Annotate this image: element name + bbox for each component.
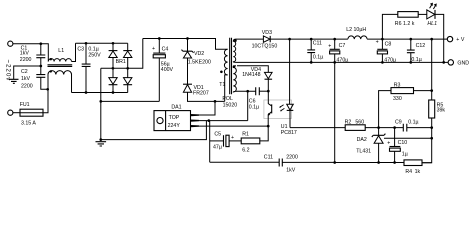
node drain junction bbox=[214, 100, 217, 103]
svg-text:1kV: 1kV bbox=[20, 50, 30, 56]
svg-text:R6 1.2 k: R6 1.2 k bbox=[395, 21, 415, 27]
svg-text:10CTQ150: 10CTQ150 bbox=[252, 44, 278, 50]
wire TL431 ref to divider bbox=[384, 137, 432, 139]
capacitor C11 0.1u (secondary) bbox=[307, 39, 323, 62]
svg-text:1kV: 1kV bbox=[286, 168, 296, 174]
svg-text:DA2: DA2 bbox=[357, 137, 367, 143]
svg-text:+: + bbox=[152, 46, 155, 52]
output terminal GND bbox=[448, 60, 453, 65]
svg-text:PC817: PC817 bbox=[281, 130, 297, 136]
node aux bottom bbox=[246, 90, 249, 93]
svg-text:TOP: TOP bbox=[169, 115, 180, 121]
diode BR1 bottom-left bbox=[112, 68, 114, 77]
wire AC2 after choke bbox=[72, 92, 128, 94]
ground symbol (primary) bbox=[96, 142, 107, 146]
svg-text:R2: R2 bbox=[345, 119, 352, 125]
node C1/C2 midpoint bbox=[39, 65, 42, 68]
wire divider column bbox=[431, 39, 433, 100]
wire control to C5 and Y-cap rail bbox=[209, 121, 211, 163]
svg-text:2200: 2200 bbox=[21, 84, 33, 90]
TVS VD2 1.5KE200 bbox=[182, 39, 211, 85]
svg-text:T1: T1 bbox=[219, 82, 225, 88]
resistor R1 6.2 bbox=[241, 126, 268, 153]
capacitor C3 0.1u 250V bbox=[77, 43, 101, 92]
node bridge AC2 bbox=[112, 91, 115, 94]
IC DA1 TOP224Y bbox=[154, 104, 199, 130]
capacitor C10 1u bbox=[387, 128, 407, 163]
node primary ground top bbox=[99, 100, 102, 103]
svg-text:POL: POL bbox=[222, 96, 233, 102]
wire aux winding top to VD4 bbox=[237, 66, 268, 73]
node TL431 anode bbox=[377, 161, 380, 164]
svg-text:DA1: DA1 bbox=[171, 104, 181, 110]
wire aux return to control bbox=[247, 91, 249, 120]
svg-text:VD3: VD3 bbox=[262, 30, 272, 36]
wire lower input bbox=[13, 112, 20, 114]
node C7 bottom bbox=[333, 61, 336, 64]
node divider mid C9 bbox=[430, 126, 433, 129]
diode BR1 bottom-right bbox=[127, 68, 129, 77]
opto light arrows bbox=[280, 105, 285, 111]
node C12 top bbox=[409, 38, 412, 41]
svg-text:330: 330 bbox=[393, 96, 402, 102]
node divider top bbox=[430, 38, 433, 41]
inductor L2 10uH bbox=[346, 27, 447, 39]
svg-text:GND: GND bbox=[457, 61, 469, 67]
opto LED bbox=[289, 39, 291, 104]
svg-text:C10: C10 bbox=[398, 140, 408, 146]
svg-text:BR1: BR1 bbox=[116, 59, 126, 65]
svg-text:2200: 2200 bbox=[286, 155, 298, 161]
fuse FU1 3.15A bbox=[20, 89, 48, 126]
svg-text:R1: R1 bbox=[242, 132, 249, 138]
diode BR1 top-left bbox=[112, 43, 114, 50]
svg-text:15020: 15020 bbox=[223, 102, 238, 108]
svg-text:0.1µ: 0.1µ bbox=[249, 105, 259, 111]
capacitor C8 470u bbox=[376, 39, 396, 64]
LED HL1 bbox=[427, 3, 444, 63]
node C8 bottom bbox=[381, 61, 384, 64]
node C10 top bbox=[393, 126, 396, 129]
node C10 bottom bbox=[393, 161, 396, 164]
resistor R2 560 bbox=[345, 119, 404, 130]
node R3 right bbox=[430, 89, 433, 92]
svg-text:1.5KE200: 1.5KE200 bbox=[188, 60, 211, 66]
capacitor C6 0.1u bbox=[249, 87, 268, 110]
capacitor C2 bbox=[21, 66, 48, 90]
wire AC1 after choke bbox=[76, 42, 128, 44]
svg-text:VD2: VD2 bbox=[194, 51, 204, 57]
shunt regulator DA2 TL431 bbox=[356, 128, 385, 163]
diode BR1 top-right bbox=[127, 43, 129, 50]
transformer T1 bbox=[219, 38, 237, 109]
svg-text:L1: L1 bbox=[58, 48, 64, 54]
svg-text:R3: R3 bbox=[394, 83, 401, 89]
svg-text:C5: C5 bbox=[214, 132, 221, 138]
svg-text:TL431: TL431 bbox=[356, 148, 371, 154]
capacitor C12 0.1u bbox=[407, 39, 425, 63]
diode VD1 FR207 bbox=[183, 84, 225, 101]
wire R6 branch from C8 node bbox=[382, 14, 397, 39]
opto phototransistor bbox=[268, 91, 271, 106]
svg-text:1N4148: 1N4148 bbox=[242, 72, 260, 78]
node bottom rail / C7 column bbox=[333, 161, 336, 164]
bottom rail to R4 bbox=[335, 162, 404, 164]
wire source pin bbox=[199, 125, 268, 127]
node source / emitter / R1 bbox=[267, 125, 270, 128]
svg-text:560: 560 bbox=[355, 119, 364, 125]
node C11 top bbox=[310, 38, 313, 41]
earth ground at input bbox=[9, 79, 19, 83]
pin 2 control bbox=[191, 120, 200, 122]
svg-text:1µ: 1µ bbox=[402, 152, 408, 158]
svg-text:HL1: HL1 bbox=[427, 21, 437, 27]
svg-text:C9: C9 bbox=[395, 119, 402, 125]
T1 secondary winding bbox=[233, 39, 236, 62]
input terminal X2 (lower) bbox=[8, 110, 13, 115]
wire aux winding bottom bbox=[237, 90, 256, 92]
capacitor C9 0.1u bbox=[395, 119, 432, 131]
svg-text:R4: R4 bbox=[405, 169, 412, 175]
node L1 bottom-left / C2 / fuse bbox=[46, 88, 49, 91]
wire bridge minus to primary ground bbox=[100, 68, 102, 139]
svg-text:1k: 1k bbox=[415, 169, 421, 175]
svg-text:39k: 39k bbox=[437, 108, 446, 114]
svg-text:C7: C7 bbox=[339, 43, 346, 49]
node VD4 cathode / C6 / opto collector bbox=[267, 90, 270, 93]
node C7 top bbox=[333, 38, 336, 41]
T1 aux winding bbox=[233, 66, 237, 92]
capacitor C1 bbox=[20, 44, 46, 66]
svg-text:L2 10µH: L2 10µH bbox=[346, 27, 366, 33]
resistor R5 39k bbox=[422, 100, 445, 163]
pin 1 drain bbox=[191, 114, 200, 116]
svg-text:FR207: FR207 bbox=[193, 90, 209, 96]
svg-text:C11: C11 bbox=[264, 155, 273, 161]
wire midpoint to earth bbox=[14, 66, 41, 79]
rectified + rail bbox=[143, 39, 228, 50]
wire primary ground rail to TOP source bbox=[101, 121, 207, 140]
resistor R4 1k bbox=[404, 160, 432, 175]
node TL431 cathode bbox=[377, 126, 380, 129]
resistor R3 330 bbox=[379, 83, 432, 128]
node HL1 return bbox=[442, 61, 445, 64]
svg-text:2200: 2200 bbox=[20, 57, 32, 63]
Y-capacitor C11 2200 1kV bbox=[210, 155, 335, 174]
wire upper input bbox=[13, 44, 48, 62]
output terminal +V bbox=[447, 36, 452, 41]
wire drain riser to TOP pin bbox=[199, 101, 215, 115]
node C3 top bbox=[85, 42, 88, 45]
wire feedback riser (C7 column to bottom rail) bbox=[334, 62, 336, 162]
svg-text:C8: C8 bbox=[385, 42, 392, 48]
wire opto LED cathode to R2 bbox=[290, 127, 345, 129]
svg-text:224Y: 224Y bbox=[168, 123, 181, 129]
svg-text:3.15 A: 3.15 A bbox=[21, 121, 36, 127]
node C11 bottom bbox=[310, 61, 313, 64]
svg-text:C4: C4 bbox=[162, 46, 169, 52]
T1 primary winding bbox=[224, 49, 227, 75]
optocoupler U1 PC817 bbox=[264, 39, 297, 136]
svg-text:400V: 400V bbox=[161, 67, 174, 73]
bridge rectifier BR1 bbox=[101, 39, 143, 93]
svg-text:0.1µ: 0.1µ bbox=[313, 55, 323, 61]
node bridge AC1 left column bbox=[112, 42, 115, 45]
node C3 bottom bbox=[85, 91, 88, 94]
input terminal X1 (upper) bbox=[8, 41, 13, 46]
node C4 top bbox=[158, 37, 161, 40]
diode VD3 10CTQ150 bbox=[236, 30, 290, 49]
svg-text:+: + bbox=[231, 135, 234, 141]
capacitor C7 470u bbox=[328, 39, 348, 64]
capacitor C5 47u with R1 bbox=[210, 132, 242, 151]
svg-text:1kV: 1kV bbox=[21, 76, 31, 82]
node control bbox=[207, 119, 210, 122]
diode VD4 1N4148 bbox=[242, 67, 272, 91]
svg-text:C2: C2 bbox=[21, 69, 28, 75]
node C12 bottom bbox=[409, 61, 412, 64]
svg-text:0.1µ: 0.1µ bbox=[408, 119, 418, 125]
svg-text:C11: C11 bbox=[313, 40, 322, 46]
wire control pin bbox=[199, 120, 248, 122]
svg-text:+: + bbox=[376, 40, 379, 46]
svg-text:6.2: 6.2 bbox=[242, 147, 249, 153]
node C8 top bbox=[381, 38, 384, 41]
choke L1 bbox=[48, 43, 76, 92]
svg-text:+: + bbox=[328, 44, 331, 50]
wire primary ground bus bbox=[101, 100, 160, 102]
pin 3 source bbox=[191, 125, 200, 127]
capacitor C4 56u 400V bbox=[152, 39, 174, 102]
svg-text:~220v: ~220v bbox=[4, 60, 10, 82]
GND rail (secondary bottom) bbox=[236, 61, 448, 63]
node ground symbol junction bbox=[99, 138, 102, 141]
svg-text:C3: C3 bbox=[77, 47, 84, 53]
node opto anode bbox=[288, 38, 291, 41]
resistor R6 1.2k bbox=[395, 12, 427, 27]
svg-text:FU1: FU1 bbox=[20, 102, 30, 108]
T1 core bbox=[230, 38, 232, 95]
+V output rail bbox=[290, 38, 348, 40]
svg-text:+: + bbox=[387, 141, 390, 147]
wire bridge midline bbox=[101, 39, 143, 69]
node ref/divider bbox=[430, 137, 433, 140]
svg-text:C12: C12 bbox=[416, 43, 426, 49]
node VD2 top bbox=[186, 37, 189, 40]
svg-text:47µ: 47µ bbox=[213, 144, 222, 150]
node C1 top bbox=[39, 42, 42, 45]
svg-text:250V: 250V bbox=[88, 52, 101, 58]
svg-text:+ V: + V bbox=[456, 37, 465, 43]
